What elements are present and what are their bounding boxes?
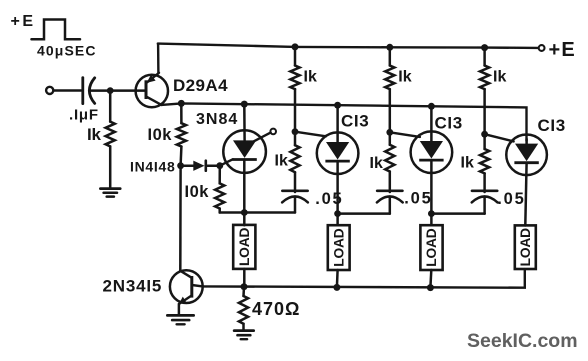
ground (R1): [100, 189, 120, 197]
svg-text:.IμF: .IμF: [69, 107, 99, 124]
svg-text:I0k: I0k: [148, 126, 173, 144]
svg-text:Ik: Ik: [87, 125, 102, 144]
svg-text:D29A4: D29A4: [173, 76, 228, 95]
svg-text:Ik: Ik: [275, 152, 288, 169]
resistor 1k (gate, stage 3): [385, 132, 394, 192]
node SCR1 cathode: [241, 209, 248, 216]
wire node B to Q2 base: [179, 166, 182, 271]
wire SCR4 cathode: [525, 163, 526, 226]
resistor R1 1k (input to ground): [106, 91, 115, 189]
input terminal: [46, 87, 53, 94]
load box 2: [328, 225, 350, 270]
load box 3: [420, 225, 442, 270]
diode D1 1N4148: [181, 161, 220, 171]
svg-text:470Ω: 470Ω: [252, 299, 300, 319]
wire coupling cap 3 to SCR2 cathode: [338, 212, 390, 215]
svg-text:LOAD: LOAD: [237, 228, 252, 267]
wire SCR1 cathode-gate lead: [220, 159, 233, 165]
node SCR2 anode: [334, 102, 341, 109]
node gate stage 3: [386, 129, 393, 136]
svg-text:+E: +E: [11, 13, 36, 30]
wire gate lead SCR2: [295, 132, 326, 137]
svg-text:+E: +E: [549, 39, 576, 61]
svg-text:3N84: 3N84: [196, 111, 238, 128]
capacitor .05 (coupling, stage 2): [282, 191, 308, 213]
ground (Q2): [167, 315, 193, 324]
svg-text:.05: .05: [315, 190, 343, 208]
svg-text:LOAD: LOAD: [518, 228, 533, 267]
node Q1 collector / anode bus: [178, 100, 185, 107]
wire load1 bottom stub: [243, 269, 246, 287]
node SCR2 cathode: [334, 210, 341, 217]
node +E rail junction 1: [292, 43, 299, 50]
capacitor .05 (coupling, stage 3): [377, 191, 403, 214]
capacitor C1 .1uF: [83, 78, 95, 104]
wire SCR1 anode-gate lead: [254, 133, 271, 142]
transistor Q1 D29A4: [136, 73, 168, 107]
node load2 return: [333, 284, 340, 291]
wire anode bus from Q1 collector: [162, 103, 527, 141]
node B (diode anode node): [177, 162, 184, 169]
wire input terminal to C1: [54, 89, 82, 92]
node gate stage 2: [292, 128, 299, 135]
node SCR3 anode: [428, 103, 435, 110]
svg-text:Ik: Ik: [493, 68, 506, 85]
svg-text:LOAD: LOAD: [331, 228, 346, 267]
resistor 1k (+E dropping, stage 2): [385, 47, 394, 132]
wire anode stub SCR2: [336, 105, 339, 142]
wire Q2 emitter to ground: [178, 304, 181, 315]
node SCR3 cathode: [428, 210, 435, 217]
wire load3 bottom stub: [429, 270, 432, 288]
wire SCR3 cathode: [430, 160, 433, 225]
wire coupling cap 4 to SCR3 cathode: [431, 212, 484, 215]
node gate stage 4: [481, 131, 488, 138]
svg-text:IN4I48: IN4I48: [130, 159, 175, 175]
resistor R4 470 ohm: [239, 287, 248, 330]
wire SCR2 cathode: [336, 161, 339, 225]
SCR U1 3N84: [223, 130, 266, 173]
svg-text:Ik: Ik: [370, 155, 383, 172]
resistor 1k (gate, stage 4): [480, 134, 489, 192]
capacitor .05 (coupling, stage 4): [472, 191, 498, 214]
svg-text:Ik: Ik: [461, 155, 474, 172]
load box 4: [515, 225, 536, 269]
SCR U2 C13: [317, 132, 359, 174]
wire Q1 emitter to +E rail: [157, 44, 160, 73]
wire anode stub SCR4: [525, 139, 528, 144]
svg-text:2N34I5: 2N34I5: [103, 277, 163, 296]
svg-text:.05: .05: [497, 190, 525, 208]
transistor Q2 2N3415: [170, 270, 203, 304]
wire anode stub SCR1: [243, 104, 246, 141]
svg-text:Ik: Ik: [398, 68, 411, 85]
SCR U3 C13: [411, 131, 453, 173]
svg-text:CI3: CI3: [435, 114, 463, 133]
resistor R2 10k (collector to diode): [177, 103, 186, 165]
node A (input node): [107, 87, 114, 94]
wire SCR1 cathode: [243, 160, 246, 226]
resistor R3 10k (gate to cathode): [215, 166, 224, 213]
wire gate lead SCR4: [485, 134, 514, 141]
svg-text:SeekIC.com: SeekIC.com: [467, 330, 578, 352]
wire +E supply rail: [158, 44, 538, 48]
node load1 / 470 ohm: [241, 283, 248, 290]
resistor 1k (+E dropping, stage 3): [480, 48, 489, 135]
svg-text:CI3: CI3: [341, 112, 369, 131]
terminal SCR1 anode gate: [270, 129, 276, 135]
pulse waveform symbol: [32, 20, 81, 40]
node load3 return: [427, 284, 434, 291]
load box 1: [233, 225, 255, 269]
node +E rail junction 3: [481, 44, 488, 51]
resistor 1k (gate, stage 2): [290, 132, 299, 192]
wire R3/C2 to SCR1 cathode: [220, 211, 295, 214]
SCR U4 C13: [506, 135, 547, 176]
+E terminal: [539, 45, 545, 51]
svg-text:I0k: I0k: [185, 183, 210, 201]
wire gate lead SCR3: [390, 132, 420, 137]
svg-text:LOAD: LOAD: [424, 228, 439, 267]
svg-text:40μSEC: 40μSEC: [37, 42, 97, 58]
node +E rail junction 2: [386, 44, 393, 51]
wire C1 to Q1 base: [89, 89, 146, 92]
svg-text:Ik: Ik: [304, 68, 317, 85]
svg-text:.05: .05: [404, 190, 432, 208]
wire cathode return bus: [203, 269, 525, 288]
node C (3N84 cathode gate node): [216, 162, 223, 169]
wire anode stub SCR3: [430, 106, 433, 141]
resistor 1k (+E dropping, stage 1): [290, 47, 299, 132]
wire load2 bottom stub: [336, 270, 339, 288]
svg-text:CI3: CI3: [538, 116, 566, 135]
node SCR1 anode: [241, 101, 248, 108]
ground (R4): [234, 331, 253, 340]
